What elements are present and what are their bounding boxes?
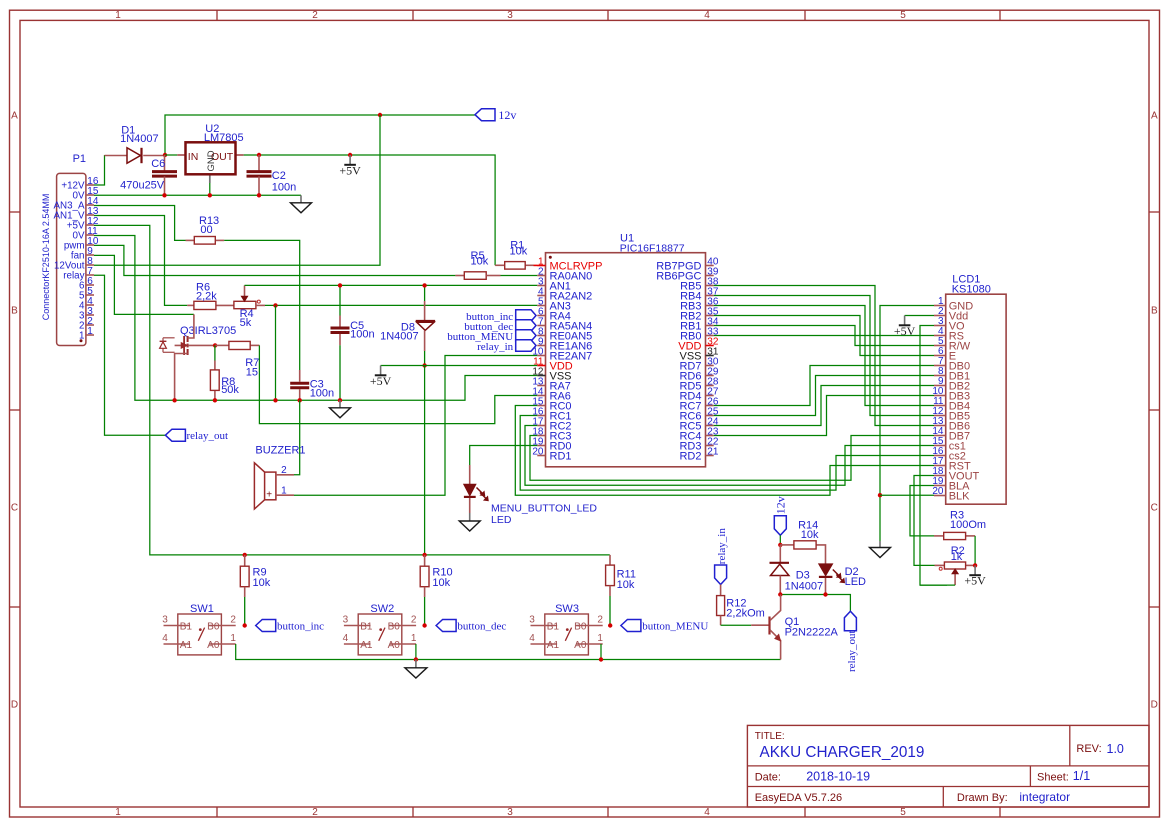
net flag relay_out at Q1 xyxy=(844,611,857,672)
svg-text:SW1: SW1 xyxy=(190,603,214,615)
svg-text:RD2: RD2 xyxy=(679,451,701,463)
resistor R14 xyxy=(780,519,825,564)
svg-text:3: 3 xyxy=(343,615,349,626)
U1 pin 30 RD7 xyxy=(679,356,718,372)
wire R13 to C3 xyxy=(224,240,300,370)
wire RC5 to LCD DB2 xyxy=(714,386,934,426)
svg-text:A: A xyxy=(11,111,18,122)
junction C2 top xyxy=(257,153,261,157)
power flag +5V near U2 xyxy=(349,155,351,165)
U1 pin 18 RC3 xyxy=(532,426,571,442)
U1 pin 27 RD4 xyxy=(679,386,718,402)
svg-text:A0: A0 xyxy=(207,640,220,651)
switch SW1 xyxy=(162,603,236,655)
wire LCD VO to R2 wiper xyxy=(920,326,947,586)
resistor R6 xyxy=(187,282,234,310)
wire RC4 to LCD DB3 xyxy=(714,396,934,436)
svg-text:1: 1 xyxy=(87,326,93,337)
transistor Q1 P2N2222A xyxy=(751,595,838,660)
svg-text:A1: A1 xyxy=(547,640,560,651)
svg-text:A1: A1 xyxy=(360,640,373,651)
U1 pin 1 MCLRVPP xyxy=(537,256,602,272)
svg-text:4: 4 xyxy=(529,633,535,644)
svg-text:Drawn By:: Drawn By: xyxy=(957,792,1008,804)
svg-text:2: 2 xyxy=(312,807,318,818)
ground under buttons xyxy=(405,660,427,679)
U1 pin 36 RB3 xyxy=(680,296,719,312)
svg-text:Date:: Date: xyxy=(755,771,781,783)
LCD1 pin 5 R/W xyxy=(934,336,971,352)
junction 12v bus xyxy=(378,113,382,117)
svg-text:D: D xyxy=(1151,700,1158,711)
wire R7 to U1 RA6 xyxy=(259,345,537,423)
wire P1 pin10 pwm to R5 xyxy=(94,245,455,275)
svg-text:A1: A1 xyxy=(180,640,193,651)
wire RB4 to LCD DB5 xyxy=(714,296,934,416)
wire 12v flag to node xyxy=(779,535,781,545)
U1 pin 26 RC7 xyxy=(679,396,718,412)
U1 pin 29 RD6 xyxy=(679,366,718,382)
svg-text:C: C xyxy=(11,503,18,514)
wire R5 to U1 RA0AN0 xyxy=(501,275,538,277)
net flag relay_in at U1 RE1AN6 xyxy=(477,340,536,353)
svg-text:+: + xyxy=(266,489,272,500)
LCD1 pin 19 BLA xyxy=(932,476,970,492)
transistor Q3 IRL3705 xyxy=(160,314,237,400)
junction SW3 A0 ground xyxy=(599,657,603,661)
resistor R13 xyxy=(186,215,225,244)
svg-text:BLK: BLK xyxy=(949,490,970,502)
U1 pin 39 RB6PGC xyxy=(656,266,719,282)
resistor R5 xyxy=(455,250,500,280)
svg-text:GND: GND xyxy=(206,150,217,171)
LCD1 pin 9 DB2 xyxy=(934,376,970,392)
svg-text:+5V: +5V xyxy=(894,324,916,338)
svg-text:C6: C6 xyxy=(151,158,165,170)
wire R3 to R2 right xyxy=(974,536,976,566)
junction R9 bottom SW1 xyxy=(243,623,247,627)
svg-text:5: 5 xyxy=(900,10,906,21)
resistor R11 xyxy=(606,555,636,626)
U1 pin 10 RE2AN7 xyxy=(532,346,592,362)
svg-text:1: 1 xyxy=(597,633,603,644)
svg-text:2: 2 xyxy=(281,465,287,476)
ground under LCD xyxy=(870,541,891,558)
resistor R9 xyxy=(240,555,270,626)
wire R4 ground branch xyxy=(275,305,277,400)
svg-text:integrator: integrator xyxy=(1019,790,1070,804)
svg-text:100n: 100n xyxy=(350,329,374,341)
U1 pin 34 RB1 xyxy=(680,316,719,332)
junction D8 top xyxy=(422,283,426,287)
svg-text:MENU_BUTTON_LED: MENU_BUTTON_LED xyxy=(491,502,597,514)
wire RC6 to LCD DB1 xyxy=(714,376,934,416)
LCD1 pin 12 DB5 xyxy=(932,406,970,422)
regulator U2 LM7805 xyxy=(177,123,243,183)
svg-text:A0: A0 xyxy=(574,640,587,651)
svg-text:4: 4 xyxy=(162,633,168,644)
resistor R8 xyxy=(210,345,239,400)
U1 pin 3 AN1 xyxy=(537,276,571,292)
svg-text:2: 2 xyxy=(411,615,417,626)
junction R4 branch on ground bus xyxy=(273,398,277,402)
wire R4 to U1 AN3 xyxy=(265,304,537,306)
wire RC3 to LCD DB7 xyxy=(530,436,934,481)
svg-text:TITLE:: TITLE: xyxy=(755,731,785,742)
diode D8 xyxy=(380,285,435,365)
svg-text:1N4007: 1N4007 xyxy=(120,133,159,145)
svg-text:B: B xyxy=(11,306,18,317)
junction R11 bottom SW3 xyxy=(608,623,612,627)
junction U2 GND xyxy=(208,193,212,197)
junction C2 bottom xyxy=(257,193,261,197)
LCD module LCD1 KS1080 xyxy=(946,274,1006,505)
LED MENU_BUTTON_LED xyxy=(464,465,598,526)
svg-text:3: 3 xyxy=(529,615,535,626)
net flag relay_in above R12 xyxy=(715,528,728,585)
U1 pin 17 RC2 xyxy=(532,416,571,432)
svg-text:1.0: 1.0 xyxy=(1107,742,1124,756)
net flag button_MENU at U1 RE0AN5 xyxy=(447,330,536,343)
diode D1 xyxy=(105,124,165,163)
net flag button_inc at U1 RA4 xyxy=(466,310,536,323)
potentiometer R4 xyxy=(234,285,265,329)
svg-text:5: 5 xyxy=(900,807,906,818)
wire R1 to U1 MCLR xyxy=(534,264,538,266)
junction R2 R3 +5V xyxy=(973,563,977,567)
svg-text:relay_in: relay_in xyxy=(477,341,514,353)
junction C5 bottom xyxy=(338,398,342,402)
svg-text:20: 20 xyxy=(532,446,544,457)
svg-text:B1: B1 xyxy=(180,621,193,632)
svg-text:3: 3 xyxy=(507,807,513,818)
U1 pin 11 VDD xyxy=(533,356,573,372)
LCD1 pin 11 DB4 xyxy=(933,396,970,412)
junction R8 bottom xyxy=(213,398,217,402)
svg-text:2: 2 xyxy=(312,10,318,21)
LCD1 pin 4 RS xyxy=(934,326,964,342)
wire LCD GND down to ground xyxy=(880,306,934,542)
U1 pin 38 RB5 xyxy=(680,276,719,292)
wire U2 OUT to +5V rail xyxy=(244,155,495,265)
svg-text:C: C xyxy=(1151,503,1158,514)
net flag button_inc at SW1 xyxy=(256,620,324,633)
wire P1 pin9 fan to Q3 drain xyxy=(94,255,194,314)
svg-text:B1: B1 xyxy=(360,621,373,632)
junction C6 bottom xyxy=(162,193,166,197)
LCD1 pin 10 DB3 xyxy=(932,386,970,402)
svg-text:button_MENU: button_MENU xyxy=(642,621,708,633)
svg-text:AKKU CHARGER_2019: AKKU CHARGER_2019 xyxy=(760,744,925,761)
capacitor C5 xyxy=(331,285,375,400)
svg-text:2: 2 xyxy=(230,615,236,626)
wire SW3 A0 down xyxy=(600,644,602,660)
LCD1 pin 3 VO xyxy=(934,316,965,332)
wire LCD Vdd to +5V xyxy=(905,315,934,317)
net flag 12v xyxy=(475,108,516,122)
svg-text:+5V: +5V xyxy=(964,574,986,588)
svg-text:10k: 10k xyxy=(432,577,450,589)
wire RB5 to LCD DB6 xyxy=(714,286,934,426)
junction +5V tap xyxy=(348,153,352,157)
svg-text:100Om: 100Om xyxy=(950,519,986,531)
potentiometer R2 xyxy=(935,545,976,585)
svg-text:10k: 10k xyxy=(510,246,528,258)
wire VDD node down to button rail xyxy=(424,366,426,555)
LCD1 pin 2 Vdd xyxy=(934,306,968,322)
junction SW2 A0 ground xyxy=(414,657,418,661)
svg-text:2,2kOm: 2,2kOm xyxy=(726,608,765,620)
ground at C5 xyxy=(339,400,341,408)
svg-text:LED: LED xyxy=(845,576,866,588)
svg-text:50k: 50k xyxy=(221,384,239,396)
svg-text:SW3: SW3 xyxy=(555,603,579,615)
IC U1 PIC16F18877 xyxy=(546,233,706,467)
capacitor C2 xyxy=(247,155,297,195)
wire P1 pin14 AN3_A to R13 xyxy=(94,206,186,241)
wire RB2 to LCD E xyxy=(714,316,934,356)
svg-text:relay_in: relay_in xyxy=(716,528,728,565)
svg-text:1: 1 xyxy=(115,807,121,818)
wire SW2 A0 down xyxy=(415,644,417,660)
wire 12v bus top xyxy=(165,115,475,155)
U1 pin 2 RA0AN0 xyxy=(537,266,592,282)
junction LCD BLK node xyxy=(878,493,882,497)
U1 pin 15 RC0 xyxy=(532,396,571,412)
svg-text:A: A xyxy=(1151,111,1158,122)
junction 12v node xyxy=(778,543,782,547)
power flag +5V at LCD xyxy=(904,316,906,326)
LCD1 pin 14 DB7 xyxy=(932,426,970,442)
junction C5 top xyxy=(338,283,342,287)
svg-text:KS1080: KS1080 xyxy=(952,283,991,295)
U1 pin 19 RD0 xyxy=(532,436,571,452)
junction Q3 gate node xyxy=(213,343,217,347)
svg-text:EasyEDA V5.7.26: EasyEDA V5.7.26 xyxy=(755,792,842,804)
U1 pin 9 RE1AN6 xyxy=(537,336,592,352)
svg-text:+5V: +5V xyxy=(339,163,361,177)
LCD1 pin 6 E xyxy=(934,346,956,362)
resistor R1 xyxy=(495,240,533,269)
LCD1 pin 15 cs1 xyxy=(932,436,965,452)
U1 pin 37 RB4 xyxy=(680,286,719,302)
svg-text:Q3IRL3705: Q3IRL3705 xyxy=(180,325,236,337)
svg-text:1: 1 xyxy=(230,633,236,644)
junction D3 bottom xyxy=(778,592,782,596)
svg-text:100n: 100n xyxy=(310,387,334,399)
svg-text:P2N2222A: P2N2222A xyxy=(785,626,839,638)
U1 pin 32 VDD xyxy=(678,336,719,352)
LCD1 pin 13 DB6 xyxy=(932,416,970,432)
net flag 12v at relay xyxy=(774,496,788,535)
resistor R10 xyxy=(420,555,452,626)
junction Q3 source on ground bus xyxy=(172,398,176,402)
svg-text:470u25V: 470u25V xyxy=(120,179,165,191)
svg-text:relay_out: relay_out xyxy=(187,430,229,442)
svg-text:1/1: 1/1 xyxy=(1073,769,1090,783)
U1 pin 13 RA7 xyxy=(532,376,571,392)
svg-text:00: 00 xyxy=(200,224,212,236)
junction D8 bottom VDD node xyxy=(422,363,426,367)
connector P1 xyxy=(41,153,99,346)
svg-text:3: 3 xyxy=(507,10,513,21)
U1 pin 16 RC1 xyxy=(532,406,571,422)
U1 pin 33 RB0 xyxy=(680,326,719,342)
switch SW2 xyxy=(343,603,417,655)
U1 pin 28 RD5 xyxy=(679,376,718,392)
wire D1 node to U2 IN xyxy=(165,154,178,156)
svg-text:12v: 12v xyxy=(498,108,516,122)
U1 pin 8 RE0AN5 xyxy=(537,326,592,342)
U1 pin 14 RA6 xyxy=(532,386,571,402)
junction R4 right to ground branch xyxy=(273,303,277,307)
wire +5V to U1 VDD xyxy=(381,365,538,367)
wire relay output row xyxy=(780,595,850,612)
svg-text:LM7805: LM7805 xyxy=(204,132,244,144)
wire R2 wiper row xyxy=(920,584,955,586)
svg-text:21: 21 xyxy=(707,446,719,457)
net flag button_dec at U1 RA5AN4 xyxy=(464,320,536,333)
wire buzzer pin2 to ground bus xyxy=(294,400,300,475)
svg-text:LED: LED xyxy=(491,514,512,526)
U1 pin 4 RA2AN2 xyxy=(537,286,592,302)
net flag button_dec at SW2 xyxy=(436,620,506,633)
wire RB3 to LCD DB4 xyxy=(714,306,934,406)
wire P1 pin12 +5V to button rail xyxy=(94,225,610,555)
svg-text:B0: B0 xyxy=(207,621,220,632)
wire buzzer pin1 to U1 RE2AN7 xyxy=(294,356,537,496)
wire LCD VOUT to R2 xyxy=(914,476,935,566)
svg-text:2: 2 xyxy=(597,615,603,626)
wire P1 pin8 12Vout to 12v net xyxy=(94,115,380,265)
svg-text:+5V: +5V xyxy=(370,374,392,388)
ground under power section xyxy=(300,195,302,203)
svg-text:15: 15 xyxy=(246,366,258,378)
junction D1-U2 node xyxy=(163,153,167,157)
power flag +5V at U1 VDD xyxy=(380,366,382,376)
svg-text:2018-10-19: 2018-10-19 xyxy=(806,769,870,783)
svg-text:1: 1 xyxy=(115,10,121,21)
svg-text:B0: B0 xyxy=(388,621,401,632)
svg-text:4: 4 xyxy=(704,807,710,818)
svg-text:B: B xyxy=(1151,306,1158,317)
wire RC1 to LCD cs2 xyxy=(520,416,934,491)
capacitor C6 xyxy=(120,155,177,195)
junction R10 bottom SW2 xyxy=(422,623,426,627)
net flag button_MENU at SW3 xyxy=(621,620,708,633)
LED D2 xyxy=(819,564,866,595)
svg-text:1: 1 xyxy=(411,633,417,644)
LCD1 pin 18 VOUT xyxy=(932,466,979,482)
svg-text:4: 4 xyxy=(343,633,349,644)
U1 pin 5 AN3 xyxy=(537,296,571,312)
svg-text:ConnectorKF2510-16A 2.54MM: ConnectorKF2510-16A 2.54MM xyxy=(41,194,51,321)
U1 pin 20 RD1 xyxy=(532,446,571,462)
ground under MENU LED xyxy=(459,513,480,531)
LCD1 pin 16 cs2 xyxy=(932,446,965,462)
svg-text:1N4007: 1N4007 xyxy=(785,580,824,592)
svg-text:BUZZER1: BUZZER1 xyxy=(255,445,305,457)
svg-text:D: D xyxy=(11,700,18,711)
wire RB0 to LCD RS xyxy=(714,335,934,337)
svg-text:IN: IN xyxy=(188,151,199,163)
net flag relay_out left xyxy=(165,429,228,442)
svg-text:RD1: RD1 xyxy=(550,451,572,463)
U1 pin 6 RA4 xyxy=(537,306,571,322)
svg-text:3: 3 xyxy=(162,615,168,626)
buzzer BUZZER1 xyxy=(254,445,305,509)
svg-text:1: 1 xyxy=(281,485,287,496)
LCD1 pin 8 DB1 xyxy=(934,366,970,382)
wire RC0 to LCD RST xyxy=(515,406,934,496)
svg-text:button_inc: button_inc xyxy=(277,621,324,633)
wire ground row under U2 xyxy=(94,194,301,196)
wire RC2 to LCD cs1 xyxy=(525,426,934,486)
resistor R3 xyxy=(934,509,986,539)
svg-text:SW2: SW2 xyxy=(370,603,394,615)
title block xyxy=(747,725,1149,807)
svg-text:C2: C2 xyxy=(272,170,286,182)
svg-text:A0: A0 xyxy=(388,640,401,651)
wire RB1 to LCD R/W xyxy=(714,326,934,346)
U1 pin1 marker xyxy=(549,256,552,259)
svg-text:5k: 5k xyxy=(240,317,252,329)
wire BLK row xyxy=(880,494,934,496)
wire P1 pin7 relay to relay_out xyxy=(94,275,165,435)
svg-text:B0: B0 xyxy=(574,621,587,632)
U1 pin 22 RD3 xyxy=(679,436,718,452)
U1 pin 21 RD2 xyxy=(679,446,718,462)
svg-text:4: 4 xyxy=(704,10,710,21)
LCD1 pin 17 RST xyxy=(932,456,971,472)
junction R10 top xyxy=(422,553,426,557)
U1 pin 23 RC4 xyxy=(679,426,718,442)
diode D3 xyxy=(770,545,824,595)
svg-text:12v: 12v xyxy=(774,496,788,514)
svg-text:10k: 10k xyxy=(253,577,271,589)
junction D2 bottom xyxy=(823,592,827,596)
junction C3 bottom buzzer node xyxy=(298,398,302,402)
wire LCD BLA to R3 xyxy=(910,486,934,536)
wire P1 pin13 AN1_V to R6 xyxy=(94,216,187,306)
svg-text:button_dec: button_dec xyxy=(457,621,506,633)
U1 pin 25 RC6 xyxy=(679,406,718,422)
wire U1 RD0 to MENU LED xyxy=(470,446,538,466)
svg-text:B1: B1 xyxy=(547,621,560,632)
wire U2 GND down xyxy=(209,183,211,195)
junction R9 top xyxy=(243,553,247,557)
wire RC7 to LCD DB0 xyxy=(714,366,934,406)
wire P1 pin11 0V to ground bus and U1 VSS xyxy=(94,236,537,401)
svg-text:2,2k: 2,2k xyxy=(196,291,217,303)
svg-text:100n: 100n xyxy=(272,182,296,194)
U1 pin 31 VSS xyxy=(679,346,718,362)
U1 pin 24 RC5 xyxy=(679,416,718,432)
LCD1 pin 7 DB0 xyxy=(934,356,970,372)
svg-text:10k: 10k xyxy=(617,579,635,591)
resistor R7 xyxy=(215,341,259,378)
svg-text:10k: 10k xyxy=(471,255,489,267)
svg-text:REV:: REV: xyxy=(1076,743,1101,755)
wire SW1 A0 down and ground bus xyxy=(236,644,781,660)
capacitor C3 xyxy=(290,370,334,400)
svg-text:1N4007: 1N4007 xyxy=(380,330,419,342)
wire P1 pin16 to D1 xyxy=(94,155,105,185)
U1 pin 35 RB2 xyxy=(680,306,719,322)
resistor R12 xyxy=(717,585,765,626)
switch SW3 xyxy=(529,603,603,655)
wire R12 to Q1 base xyxy=(721,624,752,626)
